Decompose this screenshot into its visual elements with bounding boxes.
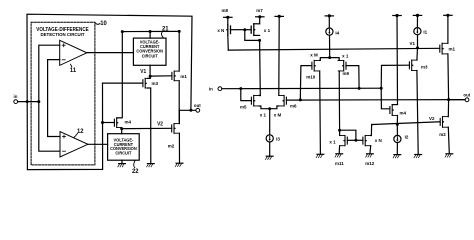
svg-text:m7: m7 xyxy=(256,8,263,13)
wire - out stub xyxy=(449,99,466,101)
wire - top bias rail xyxy=(122,30,179,32)
svg-text:I2: I2 xyxy=(405,134,409,139)
wire - box22 to ground xyxy=(121,160,123,163)
ground - under m3 (right) xyxy=(414,155,422,158)
wire - m2 source to ground xyxy=(178,133,180,163)
wire - m6 source to tail xyxy=(270,106,279,109)
svg-text:I4: I4 xyxy=(335,30,339,35)
svg-text:m11: m11 xyxy=(335,161,344,166)
svg-text:10: 10 xyxy=(100,20,107,27)
svg-text:in: in xyxy=(14,94,18,99)
svg-text:m1: m1 xyxy=(449,47,456,52)
ground - under box 22 xyxy=(118,164,126,167)
node - V1 (right) xyxy=(416,46,419,49)
supply - I1 xyxy=(413,14,421,17)
transistor m8 xN xyxy=(217,18,230,35)
transistor m2 (right) xyxy=(439,117,448,137)
svg-text:m1: m1 xyxy=(180,74,187,79)
svg-text:out: out xyxy=(463,92,470,97)
svg-text:CIRCUIT: CIRCUIT xyxy=(115,150,131,155)
label 22 with leader xyxy=(132,161,139,175)
node - m7 drain xyxy=(258,39,261,42)
svg-text:m4: m4 xyxy=(125,119,132,124)
wire - I4 to tail xyxy=(329,35,331,57)
svg-text:m10: m10 xyxy=(306,74,315,79)
label 12 with leader xyxy=(74,128,84,138)
wire - m1 source down to out xyxy=(447,54,450,100)
transistor m11 x1 xyxy=(329,136,347,167)
svg-text:x 1: x 1 xyxy=(260,112,267,117)
label V1 (left) xyxy=(140,69,146,75)
wire - m11 drain up xyxy=(339,130,341,135)
node V1 (left) xyxy=(149,75,152,78)
node - m11/m12 gates xyxy=(354,139,357,142)
transistor m4 (left) xyxy=(114,118,131,128)
svg-text:x 1: x 1 xyxy=(342,53,349,58)
wire - B riser down to m4 gate xyxy=(381,88,390,109)
wire - tail to I3 xyxy=(269,109,271,135)
svg-text:V1: V1 xyxy=(409,41,415,46)
svg-text:x M: x M xyxy=(274,112,282,117)
box 21 - voltage-current conversion circuit xyxy=(133,38,166,65)
wire - I4 to supply xyxy=(328,16,330,28)
wire - m1 drain to supply xyxy=(447,15,449,43)
wire - m5 drain up xyxy=(259,94,260,96)
svg-text:V2: V2 xyxy=(429,116,435,121)
node - top rail left xyxy=(121,30,124,33)
supply - m1 drain xyxy=(444,14,452,17)
wire - m6 drain up to supply xyxy=(278,16,280,95)
wire - m12 gate lead xyxy=(356,139,363,141)
svg-text:x 1: x 1 xyxy=(329,139,336,144)
node - m9 gate on in bus xyxy=(358,87,361,90)
svg-text:CIRCUIT: CIRCUIT xyxy=(142,53,158,58)
transistor m5 x1 xyxy=(240,95,266,117)
transistor m1 (left) xyxy=(172,71,187,81)
transistor m3 (right) xyxy=(409,60,428,70)
terminal in (right) xyxy=(209,86,222,91)
supply - I4 xyxy=(325,14,333,17)
svg-text:x 1: x 1 xyxy=(264,28,271,33)
wire - m4 source to V2 node xyxy=(396,115,398,124)
svg-text:m3: m3 xyxy=(421,64,428,69)
wire - m11 diode connection xyxy=(340,130,356,140)
current source I4 xyxy=(326,28,340,35)
transistor m9 x1 xyxy=(338,53,349,76)
node - m10 gate tap on out bus xyxy=(299,98,302,101)
wire - V2 node into box 22 xyxy=(121,129,123,134)
wire - m5 source to tail xyxy=(259,106,270,109)
ground - under m10 xyxy=(316,154,324,157)
wire - m8 gate to mirror node xyxy=(231,29,245,31)
ground - under I2 xyxy=(393,155,401,158)
wire - m1 source down to out junction and m2 drain xyxy=(178,81,180,122)
wire - m10 gate riser xyxy=(300,66,312,100)
wire - m5 gate riser xyxy=(241,89,252,101)
svg-text:m9: m9 xyxy=(343,71,350,76)
svg-text:m5: m5 xyxy=(240,104,247,109)
label V1 (right) xyxy=(409,41,415,46)
wire - m4 gate lead xyxy=(103,122,115,124)
node - m7/m8 gate xyxy=(243,28,246,31)
transistor m12 xN xyxy=(363,136,382,167)
wire - m4 drain lead xyxy=(392,104,397,106)
wire - m3 drain up to V1 node xyxy=(416,48,419,60)
svg-text:m2: m2 xyxy=(439,132,446,137)
svg-text:DETECTION CIRCUIT: DETECTION CIRCUIT xyxy=(40,32,84,37)
wire - in bus xyxy=(222,87,381,90)
wire - V2 to m2 gate xyxy=(122,127,172,129)
wire - outer loop top: in node up, across top, down to out node xyxy=(27,14,192,110)
wire - top rail left down to m4 drain xyxy=(117,32,123,118)
transistor m6 xM xyxy=(274,95,297,117)
ground - under m11 xyxy=(335,154,343,157)
box 22 - voltage-current conversion circuit xyxy=(108,134,140,161)
transistor m7 x1 xyxy=(251,24,270,36)
wire - m9 drain down to m11 node xyxy=(338,71,340,130)
current source I1 xyxy=(414,28,428,35)
svg-text:I3: I3 xyxy=(276,136,280,141)
transistor m1 (right) xyxy=(440,43,456,54)
ground - under I3 xyxy=(266,156,274,159)
transistor m3 (left) xyxy=(143,78,159,88)
node - m5 gate tap xyxy=(239,87,242,90)
ground - under m12 xyxy=(366,154,374,157)
label V2 (right) xyxy=(429,116,435,121)
wire - m2 drain up xyxy=(178,110,180,123)
wire - V1 rail (m8 drain to m1 gate) xyxy=(228,48,439,50)
svg-text:m2: m2 xyxy=(168,143,175,148)
node - out junction (right) xyxy=(447,98,450,101)
op-amp 11 xyxy=(60,40,87,65)
wire - top rail mid to box21 top xyxy=(149,32,151,39)
node - m11 drain xyxy=(338,129,341,132)
supply - m8 xyxy=(222,8,232,19)
wire - m2 drain up to out xyxy=(447,100,449,117)
svg-text:m3: m3 xyxy=(152,81,159,86)
wire - m11 source to ground xyxy=(338,146,340,154)
wire - m8 drain down to V1 rail xyxy=(227,35,230,50)
wire - m1 drain up to top rail xyxy=(178,31,180,71)
svg-text:V2: V2 xyxy=(157,121,163,127)
node - V2 (right) xyxy=(396,123,399,126)
dashed box - voltage-difference detection circuit 10 xyxy=(31,22,95,165)
wire - m3 gate line from loop riser xyxy=(103,82,143,84)
transistor m10 xM xyxy=(306,52,319,79)
wire - m3 drain to V1 xyxy=(148,76,151,78)
op-amp 12 xyxy=(60,132,88,157)
wire - I3 to ground xyxy=(269,142,271,156)
svg-text:I1: I1 xyxy=(423,29,427,34)
current source I2 xyxy=(394,134,409,142)
node - top rail right xyxy=(178,30,181,33)
wire - I1 down to V1 xyxy=(417,35,419,48)
wire - line B op11- to op12+ xyxy=(48,60,60,137)
wire - I2 to ground xyxy=(396,143,398,155)
node - I4 tail xyxy=(328,56,331,59)
wire - m3 source to ground xyxy=(417,71,418,155)
wire - m4 source down to V2 node xyxy=(121,128,123,129)
svg-text:in: in xyxy=(209,86,213,91)
wire - out bus (m6 gate to out) xyxy=(286,99,465,102)
terminal in (left) xyxy=(14,94,18,103)
svg-text:out: out xyxy=(194,103,201,108)
node - in on loop edge xyxy=(26,100,29,103)
svg-text:m8: m8 xyxy=(222,8,229,13)
node - m5/m6 tail xyxy=(268,107,271,110)
wire - line A op11+ to op12- xyxy=(39,45,60,151)
svg-text:22: 22 xyxy=(132,168,139,175)
text - VOLTAGE-DIFFERENCE DETECTION CIRCUIT xyxy=(36,27,89,37)
current source I3 xyxy=(266,135,280,142)
label V2 (left) xyxy=(157,121,163,127)
wire - m2 source to ground xyxy=(448,127,449,154)
svg-text:m4: m4 xyxy=(400,110,407,115)
terminal out (left) xyxy=(194,103,201,112)
wire - V2 to m2 gate xyxy=(373,122,441,125)
svg-text:12: 12 xyxy=(77,128,84,135)
supply - m7 xyxy=(256,8,264,19)
wire - box21 bottom to V1 node xyxy=(149,65,151,76)
svg-text:m6: m6 xyxy=(290,103,297,108)
supply - m4 drain xyxy=(393,14,401,17)
wire - m7 gate lead xyxy=(245,29,251,31)
wire - I1 to supply xyxy=(416,15,418,27)
wire - m7 source to supply xyxy=(259,17,261,24)
ground - under m2 (right) xyxy=(445,154,453,157)
svg-text:x N: x N xyxy=(375,138,383,143)
wire - m9 source to tail xyxy=(330,58,340,61)
wire - op11 output to box 21 xyxy=(87,52,134,54)
wire - m11 gate lead xyxy=(347,139,356,141)
wire - V1 to m1 gate xyxy=(150,75,172,77)
node - V2 junction (left) xyxy=(120,127,123,130)
wire - m12 source to ground xyxy=(369,146,372,154)
svg-text:x M: x M xyxy=(310,52,318,57)
wire - B riser up and to m3 gate xyxy=(381,65,409,88)
wire - outer loop bottom: in node down, across bottom, up to m3/m4 gate line xyxy=(27,83,102,170)
transistor m2 (left) xyxy=(168,124,179,149)
wire - m7 drain down to m5 drain xyxy=(259,40,262,95)
wire - m12 drain up to V2 xyxy=(371,125,373,136)
label 21 with leader xyxy=(161,25,169,38)
node - top rail mid xyxy=(149,30,152,33)
wire - op12 output to box 22 xyxy=(88,143,108,145)
wire - m7 diode connection xyxy=(245,30,260,41)
wire - m10 drain to ground xyxy=(319,71,322,154)
node - m4 gate junction on loop riser xyxy=(101,121,104,124)
svg-text:x N: x N xyxy=(217,28,225,33)
supply - m6 drain xyxy=(275,15,283,18)
terminal out (right) xyxy=(463,92,470,101)
node - in bus to B riser xyxy=(380,87,383,90)
node - out on loop edge xyxy=(189,109,192,112)
wire - out (left) xyxy=(179,109,196,111)
svg-text:11: 11 xyxy=(70,67,77,74)
wire - supply down to m4 drain xyxy=(396,16,399,105)
wire - V2 down to I2 xyxy=(396,124,398,135)
wire - m10 source to tail xyxy=(320,58,330,61)
ground - under m2 (left) xyxy=(175,163,183,166)
ground - under m3 (left) xyxy=(147,164,155,167)
wire - m9 gate to in bus xyxy=(346,66,359,89)
node - in on line A xyxy=(37,100,40,103)
transistor m4 (right) xyxy=(390,105,407,116)
wire - m3 source to ground xyxy=(148,88,151,164)
label 10 with leader xyxy=(95,20,107,27)
svg-text:V1: V1 xyxy=(140,69,146,75)
wire - in to feedback line A xyxy=(18,101,39,103)
svg-text:m12: m12 xyxy=(365,161,374,166)
label 11 with leader xyxy=(70,64,77,74)
